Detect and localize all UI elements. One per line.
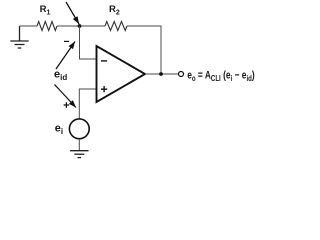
resistor R2: [105, 22, 127, 31]
wire R1 to node: [57, 25, 105, 27]
wire source to ground: [78, 139, 80, 151]
voltage source e_i: [69, 119, 89, 139]
svg-text:ei: ei: [55, 123, 63, 137]
output node dot: [159, 72, 163, 76]
wire noninverting input: [79, 89, 96, 119]
svg-text:eo = ACLI (ei − eid): eo = ACLI (ei − eid): [187, 70, 255, 84]
e_id arrow to inverting wire: [56, 42, 75, 70]
wire ground to R1: [20, 25, 38, 27]
feedback wire R2 to output: [127, 26, 161, 74]
op-amp plus input sign: [101, 86, 107, 92]
e_id arrow to noninverting wire: [55, 85, 77, 108]
arrow to summing node: [66, 2, 79, 24]
wire node down to inverting input: [80, 26, 97, 59]
resistor R1: [37, 22, 57, 31]
polarity plus sign: [64, 102, 70, 108]
output wire: [145, 73, 178, 75]
node junction dot (summing node): [78, 24, 82, 28]
op-amp minus input sign: [101, 60, 107, 62]
ground (left, input R1): [10, 26, 28, 48]
svg-text:R1: R1: [40, 4, 51, 16]
svg-text:eid: eid: [54, 69, 67, 83]
op-amp U1: [97, 46, 146, 102]
polarity minus sign: [64, 40, 69, 42]
output terminal circle: [179, 72, 184, 77]
ground (bottom, source): [70, 151, 88, 158]
svg-text:R2: R2: [109, 4, 120, 16]
